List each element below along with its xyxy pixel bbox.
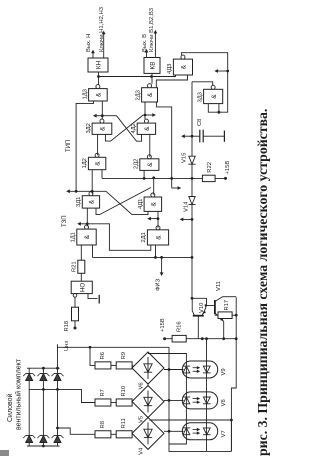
- svg-text:4Д3: 4Д3: [167, 64, 173, 74]
- wire R7-R10: [111, 402, 116, 404]
- wire +15V-R16: [165, 338, 173, 340]
- diode V14: [189, 197, 195, 205]
- wire V10 collector step to V11: [192, 298, 206, 305]
- chassis terminal at НО: [88, 294, 98, 299]
- wire V10 base: [197, 316, 199, 339]
- svg-text:Ключи В1,В2,В3: Ключи В1,В2,В3: [149, 7, 155, 52]
- wire 4Д3 out loop: [181, 53, 227, 113]
- vertical link КН-КВ-4Д3: [99, 75, 176, 77]
- svg-text:R11: R11: [121, 418, 127, 428]
- bridge link V5-V4: [147, 417, 149, 419]
- wire 1Д1 loop to 2Д1: [87, 224, 151, 251]
- terminal +15V (R16): [163, 337, 166, 340]
- svg-text:3Д1: 3Д1: [76, 197, 82, 207]
- svg-text:&: &: [150, 201, 157, 206]
- junction bus/C8: [191, 135, 194, 138]
- wire R21-1Д1: [80, 245, 82, 260]
- optocoupler V8: [182, 392, 217, 409]
- wire 2Д2 out to 4Д2: [149, 134, 151, 156]
- thyristor VS1 (rectifier top group): [26, 374, 33, 381]
- wire: opto LED chain: [148, 354, 186, 445]
- thyristor VS4 (rectifier bottom group): [26, 436, 33, 443]
- resistor R17: [215, 314, 218, 316]
- box КН: [88, 58, 108, 72]
- svg-text:+15В: +15В: [225, 161, 231, 175]
- svg-text:V4: V4: [139, 447, 145, 455]
- junction pair A-B left: [101, 114, 104, 117]
- resistor R18: [72, 307, 79, 321]
- svg-text:&: &: [89, 199, 96, 204]
- junction: top bus/rail2: [42, 367, 45, 370]
- svg-text:&: &: [100, 126, 107, 131]
- svg-text:3Д2: 3Д2: [86, 123, 92, 133]
- svg-text:R8: R8: [100, 421, 106, 428]
- arrow Ключи В: [154, 33, 156, 58]
- svg-text:V6: V6: [139, 382, 145, 389]
- wire 1Д1 out: [86, 208, 88, 226]
- arrow at 2Д1 junction: [150, 218, 158, 220]
- svg-text:V11: V11: [216, 281, 222, 291]
- terminal circle on НО: [73, 294, 77, 298]
- svg-text:R7: R7: [100, 389, 106, 396]
- svg-text:V9: V9: [221, 368, 227, 375]
- svg-text:R22: R22: [207, 162, 213, 173]
- wire: rail3 drop to bridge bus: [58, 346, 170, 348]
- svg-text:Вых. Н: Вых. Н: [86, 34, 92, 52]
- resistor R10: [116, 399, 132, 406]
- AND gate 4Д1: [144, 197, 162, 211]
- wire 1Д2 out to 3Д2: [97, 134, 99, 155]
- resistor R8: [95, 431, 111, 438]
- wire 2Д3 input line: [156, 102, 171, 188]
- wire R6-R9: [111, 364, 116, 366]
- svg-text:1Д1: 1Д1: [71, 232, 77, 242]
- svg-text:3Д3: 3Д3: [197, 92, 203, 102]
- junction: rail3-tap for R8: [56, 427, 59, 430]
- diagonal 3Д1node to 4Д1: [106, 191, 148, 214]
- svg-text:R6: R6: [100, 352, 106, 359]
- wire bridge-V9: [164, 369, 184, 371]
- arrow on 4Д3 loop: [226, 70, 229, 73]
- resistor R21: [78, 260, 85, 273]
- svg-text:R10: R10: [121, 386, 127, 397]
- svg-text:R17: R17: [224, 300, 230, 311]
- AND gate 3Д3: [204, 89, 223, 103]
- svg-text:ФИЗ: ФИЗ: [156, 278, 162, 291]
- arrow ТЗП: [80, 223, 87, 225]
- arrow ФИЗ: [160, 256, 163, 259]
- wire R8-R11: [111, 433, 116, 435]
- junction: bottom bus/rail2: [42, 445, 45, 448]
- svg-text:&: &: [96, 92, 103, 97]
- terminal Uнз: [74, 321, 76, 327]
- svg-text:2Д2: 2Д2: [134, 159, 140, 169]
- box НО: [71, 281, 92, 293]
- AND gate 1Д2: [88, 157, 105, 169]
- svg-text:2Д3: 2Д3: [135, 90, 141, 100]
- resistor R16: [172, 335, 186, 342]
- svg-text:вентильный комплект: вентильный комплект: [15, 358, 23, 430]
- wire: V4 right vertex drop: [150, 419, 232, 421]
- scan artifact bottom-left: [0, 450, 9, 456]
- AND gate 3Д2: [92, 123, 112, 134]
- power block: top DC bus: [27, 367, 60, 369]
- wire: bridge output bus: [169, 347, 231, 451]
- wire НО-R21: [80, 273, 82, 281]
- optocoupler V7: [182, 423, 217, 440]
- wire R10-bridge: [132, 402, 136, 403]
- svg-text:R21: R21: [72, 261, 78, 272]
- bridge link V6-V5: [147, 383, 149, 387]
- wire 4Д1 out: [153, 178, 155, 195]
- svg-text:НО: НО: [80, 283, 87, 292]
- svg-text:1Д2: 1Д2: [82, 158, 88, 168]
- svg-text:С8: С8: [197, 119, 203, 126]
- AND gate 2Д2: [140, 159, 159, 171]
- junction/arrow C-D: [69, 190, 106, 192]
- power block: bottom DC bus: [27, 445, 60, 447]
- svg-text:&: &: [144, 126, 151, 131]
- svg-text:Вых. В: Вых. В: [142, 34, 148, 52]
- svg-text:Uнз: Uнз: [64, 341, 70, 351]
- wire: AC rail 2: [42, 368, 44, 446]
- AND gate 4Д3: [173, 59, 192, 75]
- svg-text:4Д1: 4Д1: [138, 199, 144, 209]
- thyristor VS6 (rectifier bottom group): [54, 436, 61, 443]
- svg-text:ТЗП: ТЗП: [62, 215, 68, 227]
- svg-text:рис. 3. Принципиальная схема л: рис. 3. Принципиальная схема логического…: [255, 109, 270, 456]
- svg-text:КН: КН: [96, 60, 103, 69]
- svg-text:&: &: [147, 162, 154, 167]
- arrow Ключи Н: [103, 34, 105, 58]
- wire: AC rail 1: [28, 368, 30, 446]
- bridge rectifier V4: [132, 417, 164, 449]
- svg-text:V10: V10: [199, 303, 205, 313]
- AND gate 3Д1: [82, 196, 99, 208]
- transistor V11: [214, 300, 216, 314]
- box КВ: [144, 58, 160, 74]
- transistor V10: [193, 315, 204, 317]
- diagonal 4Д1node to 3Д1: [96, 188, 151, 215]
- bridge rectifier V6: [132, 352, 164, 384]
- svg-text:КВ: КВ: [150, 62, 157, 70]
- arrow at C8 junction: [184, 135, 192, 137]
- wire 1Д3 out to КН: [98, 72, 100, 85]
- pull-up line: [102, 177, 226, 179]
- svg-text:Ключи Н1,Н2,Н3: Ключи Н1,Н2,Н3: [99, 6, 105, 52]
- svg-text:4Д2: 4Д2: [131, 123, 137, 133]
- wire 3Д1 out to 1Д2: [91, 170, 93, 194]
- wire to 2Д2 input: [143, 170, 145, 178]
- svg-text:2Д1: 2Д1: [141, 232, 147, 242]
- diode V15: [189, 156, 195, 164]
- svg-text:R18: R18: [64, 321, 70, 332]
- resistor R7: [95, 399, 111, 406]
- wire 3Д2 out to 1Д3: [101, 101, 103, 119]
- svg-text:V14: V14: [184, 201, 190, 212]
- svg-text:&: &: [181, 64, 188, 69]
- resistor R9: [116, 362, 132, 369]
- AND gate 1Д3: [89, 89, 108, 101]
- wire 3Д3 out to bus: [192, 82, 213, 86]
- resistor R11: [116, 431, 132, 438]
- capacitor C8: [192, 135, 200, 137]
- arrow below pull-up: [172, 187, 179, 189]
- junction pair A-B right: [144, 114, 147, 117]
- junction: rail3-tap: [56, 388, 59, 391]
- junction bus/V10: [191, 297, 194, 300]
- wire 2Д1 out: [157, 211, 159, 227]
- optocoupler V9: [182, 361, 217, 378]
- svg-text:Силовой: Силовой: [6, 393, 14, 422]
- svg-text:&: &: [147, 92, 154, 97]
- svg-text:&: &: [211, 94, 218, 99]
- resistor R22: [202, 175, 215, 181]
- diagonal to 3Д2: [105, 115, 143, 141]
- bridge rectifier V5: [132, 386, 164, 418]
- wire bridge-V7: [164, 430, 184, 432]
- AND gate 2Д3: [142, 88, 158, 102]
- AND gate 4Д2: [137, 123, 155, 134]
- svg-text:&: &: [95, 161, 102, 166]
- wire 4Д3 second input: [156, 75, 187, 88]
- wire ФИЗ vertical: [93, 256, 193, 258]
- wire: feed to R8: [58, 428, 96, 434]
- AND gate 2Д1: [147, 230, 168, 245]
- wire: AC rail 3: [57, 344, 59, 446]
- wire: feed to R7: [29, 389, 95, 402]
- thyristor VS2 (rectifier top group): [40, 374, 47, 381]
- svg-text:1Д3: 1Д3: [82, 89, 88, 99]
- wire R16 down: [186, 338, 236, 340]
- wire bridge-V8: [164, 399, 184, 401]
- svg-text:V15: V15: [182, 153, 188, 163]
- svg-text:R16: R16: [177, 321, 183, 332]
- svg-text:ТИП: ТИП: [66, 140, 72, 152]
- wire R11-bridge: [132, 432, 136, 435]
- thyristor VS3 (rectifier top group): [54, 374, 61, 381]
- wire 3Д3 second input: [218, 104, 220, 113]
- arrow on bus (to V10): [191, 218, 194, 221]
- diagonal to 4Д2: [117, 116, 142, 142]
- thyristor VS5 (rectifier bottom group): [40, 436, 47, 443]
- wire to 2Д1 input: [155, 245, 157, 257]
- wire НО-R18: [74, 297, 76, 307]
- wire ТИП line: [76, 101, 94, 191]
- arrow Вых.В: [146, 52, 148, 58]
- wire: main bus: [191, 82, 193, 299]
- resistor R6: [95, 362, 111, 369]
- svg-text:&: &: [156, 235, 163, 240]
- wire R9-bridge: [132, 365, 136, 368]
- wire 4Д2 out to 2Д3: [144, 102, 146, 119]
- arrow Вых.Н: [92, 53, 94, 58]
- svg-text:&: &: [84, 234, 91, 239]
- svg-text:V8: V8: [221, 399, 227, 406]
- wire: V11 collector bus: [231, 297, 236, 451]
- svg-text:R9: R9: [121, 352, 127, 359]
- AND gate 1Д1: [77, 229, 96, 245]
- wire: opto series chain: [206, 339, 208, 452]
- svg-text:V7: V7: [221, 430, 227, 437]
- svg-text:+15В: +15В: [160, 318, 166, 332]
- wire 2Д3 out to КВ: [151, 73, 153, 83]
- label V10/V11 junction: [205, 304, 207, 306]
